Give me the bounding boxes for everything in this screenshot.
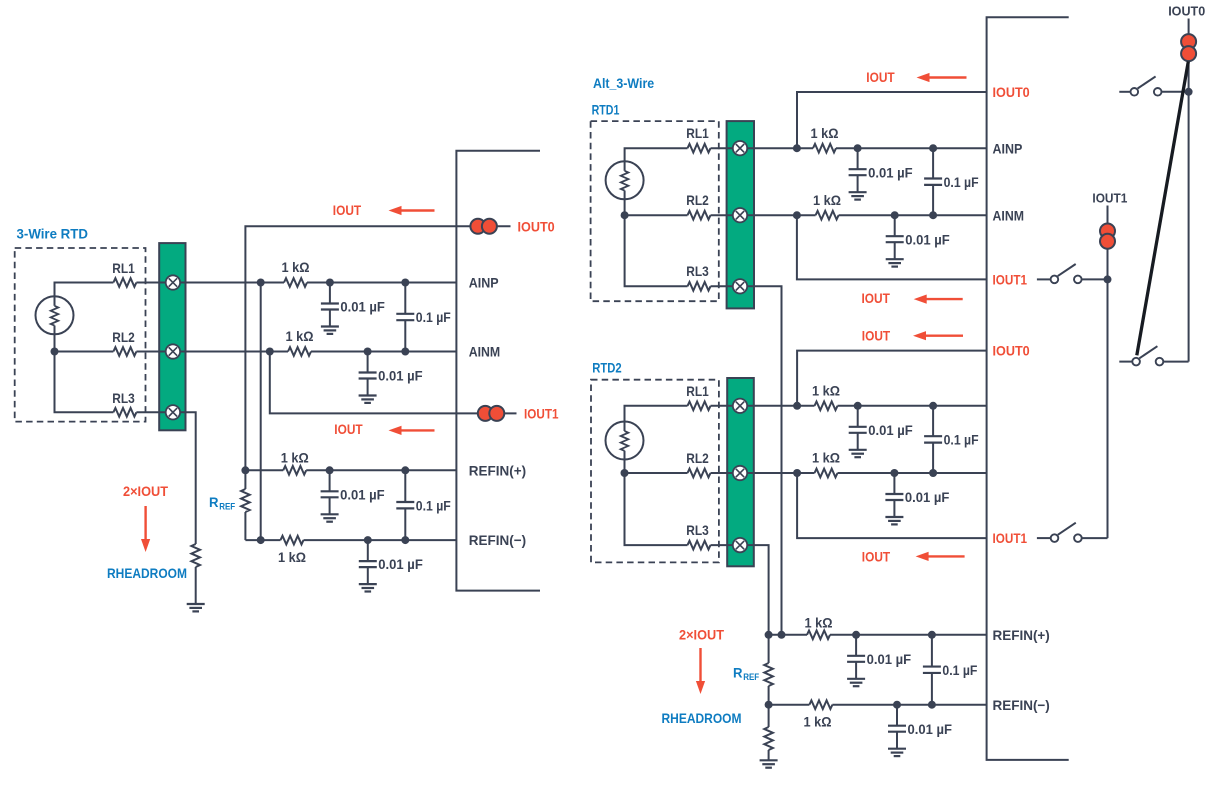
resistor 1 k&#937; (AINM2) [812, 450, 840, 478]
label IOUT0 (top right) [1168, 4, 1205, 19]
resistor RL3 [112, 390, 136, 416]
switch S2 stub [1037, 278, 1051, 280]
svg-text:IOUT0: IOUT0 [1168, 4, 1205, 19]
svg-text:1 kΩ: 1 kΩ [286, 328, 314, 344]
svg-text:RL2: RL2 [686, 450, 709, 466]
arrow IOUT above IOUT0-2 [913, 331, 963, 340]
svg-text:0.01 µF: 0.01 µF [867, 651, 912, 667]
pin label REFIN(+) (left chip) [469, 462, 526, 478]
svg-text:IOUT: IOUT [862, 327, 891, 343]
pin label IOUT0 (chip2 top) [993, 84, 1030, 100]
RTD1 enclosure (dashed box) [591, 121, 719, 301]
wire RL3 to terminal and down [136, 412, 195, 544]
svg-text:REFIN(+): REFIN(+) [469, 462, 526, 478]
IOUT1 pin contacts (red pair) [478, 406, 505, 421]
wire IOUT0 label to contacts [1188, 19, 1190, 35]
terminal X1-2 [166, 344, 180, 358]
svg-text:3-Wire RTD: 3-Wire RTD [17, 226, 89, 242]
svg-text:IOUT0: IOUT0 [993, 343, 1030, 359]
svg-text:AINM: AINM [469, 344, 501, 360]
svg-text:RL3: RL3 [112, 390, 135, 406]
svg-text:0.01 µF: 0.01 µF [340, 299, 385, 315]
green terminal block TB3 [727, 378, 754, 566]
pin label IOUT1 (chip2) [993, 272, 1028, 288]
resistor 1 k&#937; (REFIN+ right) [805, 614, 833, 639]
IOUT1 contacts (red vertical pair) [1100, 224, 1115, 249]
green terminal block TB2 [727, 121, 754, 308]
label R_REF (right) [733, 665, 760, 683]
arrow 2xIOUT down (left) [141, 506, 150, 552]
arrow IOUT left-top [389, 206, 435, 215]
node REFIN+ 0.1uF junction (right) [928, 631, 936, 639]
wire IOUT0 net: chip pin to REFIN(+) node [245, 226, 510, 470]
svg-text:Alt_3-Wire: Alt_3-Wire [593, 75, 654, 91]
wire IOUT1 switch bus (vertical) [1107, 279, 1109, 538]
resistor 1 k&#937; (REFIN-) [278, 536, 306, 565]
svg-text:R: R [209, 494, 219, 510]
RTD2 element [606, 422, 644, 460]
svg-text:REFIN(−): REFIN(−) [993, 697, 1050, 713]
svg-text:IOUT0: IOUT0 [993, 84, 1030, 100]
svg-text:0.01 µF: 0.01 µF [378, 368, 423, 384]
resistor R_REF (right) [764, 635, 773, 705]
resistor RL2 (RTD2) [686, 450, 710, 477]
wire S2 to junction [1082, 278, 1108, 280]
wire RL1 to terminal (RTD2) [711, 405, 728, 407]
svg-text:1 kΩ: 1 kΩ [282, 259, 310, 275]
svg-text:0.01 µF: 0.01 µF [908, 721, 953, 737]
terminal TB2-2 [733, 208, 747, 222]
resistor RHEADROOM (vertical) [191, 544, 200, 567]
wire AINM1 to IOUT1 (1) pin [797, 215, 987, 279]
capacitor 0.01 uF (AINP) with ground [321, 283, 385, 334]
label RHEADROOM (right) [662, 710, 742, 726]
resistor 1 k&#937; (REFIN+) [281, 449, 309, 474]
node REFIN- R_REF bottom [765, 701, 773, 709]
terminal X1-1 [166, 275, 180, 289]
node AINP1 cap junction [854, 144, 862, 152]
capacitor 0.01 uF (REFIN-) with ground [359, 540, 423, 591]
node AINM branch [266, 348, 274, 356]
wire AINP to REFIN(-) vertical [260, 283, 262, 541]
node RTD1 bottom / RL2 [621, 211, 629, 219]
node AINM1 branch [793, 211, 801, 219]
label R_REF (left) [209, 494, 236, 512]
svg-text:RHEADROOM: RHEADROOM [107, 565, 187, 581]
svg-text:IOUT: IOUT [862, 549, 891, 565]
wire RL1 to terminal (RTD1) [711, 147, 727, 149]
capacitor 0.01 uF (AINM2) with ground [885, 473, 949, 524]
capacitor 0.01 uF (REFIN+ right) with ground [847, 635, 911, 686]
wire RL2 row left [55, 351, 114, 353]
label IOUT (left lower) [334, 421, 363, 437]
node AINM1 0.1uF junction [929, 211, 937, 219]
node AINP1 branch [793, 144, 801, 152]
svg-text:IOUT: IOUT [866, 69, 895, 85]
resistor RL3 (RTD2) [686, 522, 710, 549]
svg-text:1 kΩ: 1 kΩ [278, 549, 306, 565]
label 2xIOUT (left) [123, 483, 168, 499]
capacitor 0.1 uF (REFIN+-REFIN-) [396, 470, 451, 540]
wire RTD top to RL1 row [55, 283, 114, 297]
RTD1 element [606, 161, 644, 199]
capacitor 0.1 uF (AINP2-AINM2) [924, 406, 979, 473]
svg-text:RL3: RL3 [686, 522, 709, 538]
wire AINP2 row [727, 405, 986, 407]
terminal X1-3 [166, 405, 180, 419]
ADC U1 outline (left chip) [456, 151, 540, 591]
node REFIN+ RL3-2 junction [765, 631, 773, 639]
wire RTD2 top to RL1 row [625, 406, 688, 422]
svg-text:RL2: RL2 [112, 329, 135, 345]
wire AINM1 row [711, 214, 987, 216]
node AINM1 cap junction [891, 211, 899, 219]
svg-text:IOUT: IOUT [334, 421, 363, 437]
svg-text:RL2: RL2 [686, 192, 709, 208]
wire AINM to IOUT1 pin [270, 352, 517, 414]
arrow IOUT below IOUT1-2 [916, 552, 965, 561]
wire REFIN(+) row [245, 469, 456, 471]
terminal TB3-3 [733, 538, 747, 552]
svg-text:2×IOUT: 2×IOUT [679, 627, 724, 643]
node AINM2 branch [793, 469, 801, 477]
svg-text:1 kΩ: 1 kΩ [813, 192, 841, 208]
node REFIN+ cap junction (right) [852, 631, 860, 639]
wire RL2 row left (RTD1) [625, 214, 688, 216]
wire RTD bottom to RL3 corner [55, 334, 114, 413]
wire RTD1 bottom to RL3 corner [625, 199, 688, 286]
svg-text:RL3: RL3 [686, 263, 709, 279]
node AINM2 cap junction [890, 469, 898, 477]
label IOUT1 (mid right) [1092, 191, 1127, 206]
resistor R_REF (left) [241, 470, 250, 540]
svg-text:REF: REF [219, 502, 235, 512]
svg-text:IOUT0: IOUT0 [518, 218, 555, 234]
svg-text:RHEADROOM: RHEADROOM [662, 710, 742, 726]
svg-text:1 kΩ: 1 kΩ [812, 450, 840, 466]
svg-text:0.1 µF: 0.1 µF [944, 174, 979, 190]
wire RL3 to terminal and long vertical to REFIN(+) [711, 286, 782, 635]
capacitor 0.1 uF (AINP-AINM) [396, 283, 451, 352]
node AINP2 0.1uF junction [929, 402, 937, 410]
node REFIN- cap junction (right) [893, 701, 901, 709]
svg-text:0.1 µF: 0.1 µF [416, 497, 451, 513]
svg-text:2×IOUT: 2×IOUT [123, 483, 168, 499]
wire REFIN(-) row [769, 704, 987, 706]
label: Alt_3-Wire [593, 75, 654, 91]
wire AINM2 to IOUT1 (2) pin [797, 473, 987, 538]
label IOUT (above IOUT0-2) [862, 327, 891, 343]
switch S4 stub [1037, 537, 1051, 539]
wire RTD2 bottom to RL3 corner [625, 459, 688, 545]
wire S1 to junction [1162, 91, 1189, 93]
label RTD2 [592, 360, 622, 376]
node REFIN- 0.1uF junction (right) [928, 701, 936, 709]
node REFIN+ cap junction [326, 466, 334, 474]
wire REFIN(+) row [769, 634, 987, 636]
arrow IOUT below IOUT1-1 [914, 295, 963, 304]
wire contacts to IOUT1 node [1107, 250, 1109, 280]
svg-text:RL1: RL1 [686, 383, 709, 399]
svg-text:1 kΩ: 1 kΩ [804, 714, 832, 730]
svg-text:IOUT1: IOUT1 [993, 272, 1028, 288]
svg-text:0.01 µF: 0.01 µF [868, 164, 913, 180]
resistor RL3 (RTD1) [686, 263, 710, 290]
switch S3 stub [1119, 361, 1132, 363]
pin label AINP (chip2) [993, 140, 1023, 156]
resistor 1 k&#937; (REFIN- right) [804, 700, 833, 729]
terminal TB2-3 [733, 279, 747, 293]
wire IOUT0 (1) net [797, 92, 987, 148]
svg-text:RL1: RL1 [686, 125, 709, 141]
node AINM2 0.1uF junction [929, 469, 937, 477]
label 2xIOUT (right) [679, 627, 724, 643]
wire S3 to bus [1164, 361, 1189, 363]
wire IOUT1 label to contacts [1107, 206, 1109, 225]
node AINP 0.1uF junction [401, 279, 409, 287]
pin label REFIN(+) (chip2) [993, 627, 1050, 643]
label: 3-Wire RTD [17, 226, 89, 242]
svg-text:IOUT1: IOUT1 [993, 530, 1028, 546]
switch S1 (IOUT0 top) [1131, 76, 1162, 95]
capacitor 0.01 uF (AINP1) with ground [849, 148, 913, 199]
wire resistor to ground [195, 567, 197, 604]
label RHEADROOM (left) [107, 565, 187, 581]
node REFIN- cap junction [364, 536, 372, 544]
svg-text:1 kΩ: 1 kΩ [811, 125, 839, 141]
svg-text:IOUT1: IOUT1 [524, 406, 559, 422]
pin label IOUT0 (chip2 mid) [993, 343, 1030, 359]
svg-text:0.01 µF: 0.01 µF [340, 486, 385, 502]
wire AINP row: terminal to chip [159, 282, 456, 284]
label RTD1 [592, 102, 620, 118]
ground (right RHEADROOM) [760, 760, 778, 767]
label IOUT1 pin (left chip) [524, 406, 559, 422]
pin label AINP (left chip) [469, 275, 499, 291]
wire RL2 row left (RTD2) [625, 472, 688, 474]
resistor 1 k&#937; (AINP) [282, 259, 310, 287]
capacitor 0.01 uF (AINM) with ground [359, 352, 423, 403]
node RTD2 bottom / RL2 [621, 469, 629, 477]
svg-text:0.1 µF: 0.1 µF [944, 432, 979, 448]
wire IOUT0 switch bus (vertical) [1188, 92, 1190, 362]
svg-text:1 kΩ: 1 kΩ [812, 382, 840, 398]
node AINP2 branch [793, 402, 801, 410]
node REFIN+ RL3-1 junction [778, 631, 786, 639]
pin label AINM (left chip) [469, 344, 501, 360]
switch S2 (IOUT1 top) [1051, 264, 1082, 283]
svg-text:0.01 µF: 0.01 µF [905, 489, 950, 505]
capacitor 0.01 uF (REFIN+) with ground [321, 470, 385, 521]
capacitor 0.01 uF (AINP2) with ground [849, 406, 913, 457]
wire RL1 to terminal [136, 282, 159, 284]
label IOUT (below IOUT1-1) [862, 290, 891, 306]
node REFIN+ 0.1uF junction [401, 466, 409, 474]
switch S1 stub [1119, 91, 1130, 93]
node AINP2 cap junction [854, 402, 862, 410]
green terminal block TB1 [159, 243, 185, 430]
node REFIN- 0.1uF junction [401, 536, 409, 544]
wire IOUT0 (2) net [797, 351, 987, 406]
node REFIN(+) R_REF top [241, 466, 249, 474]
svg-text:0.1 µF: 0.1 µF [942, 662, 977, 678]
wire AINM row: RL2 to chip [136, 351, 456, 353]
node AINM cap junction [364, 348, 372, 356]
pin label AINM (chip2) [993, 207, 1025, 223]
svg-text:1 kΩ: 1 kΩ [281, 449, 309, 465]
IOUT0 contacts (red vertical pair) [1181, 34, 1196, 61]
svg-text:REF: REF [743, 672, 759, 682]
wire RTD1 top to RL1 row [625, 148, 688, 162]
resistor 1 k&#937; (AINM) [286, 328, 314, 356]
resistor RHEADROOM (right, vertical) [764, 705, 773, 760]
crossbar IOUT0 to S3 (thick link) [1137, 62, 1189, 356]
wire contacts to switch node [1188, 60, 1190, 92]
switch S4 (IOUT1 bottom) [1051, 523, 1082, 542]
pin label IOUT1 (chip2 lower) [993, 530, 1028, 546]
svg-text:REFIN(+): REFIN(+) [993, 627, 1050, 643]
resistor RL1 (RTD2) [686, 383, 710, 410]
resistor RL2 (RTD1) [686, 192, 710, 219]
arrow 2xIOUT down (right) [696, 648, 705, 694]
svg-text:IOUT: IOUT [333, 202, 362, 218]
svg-text:AINM: AINM [993, 207, 1025, 223]
node AINP branch [257, 279, 265, 287]
resistor 1 k&#937; (AINM1) [813, 192, 841, 220]
arrow IOUT left-lower [389, 426, 435, 435]
pin label REFIN(-) (left chip) [469, 532, 526, 548]
resistor RL1 [112, 260, 136, 287]
wire AINP1 row [727, 147, 987, 149]
svg-text:IOUT: IOUT [862, 290, 891, 306]
svg-text:REFIN(−): REFIN(−) [469, 532, 526, 548]
svg-text:RL1: RL1 [112, 260, 135, 276]
wire AINM2 row [711, 472, 987, 474]
node AINM 0.1uF junction [401, 348, 409, 356]
svg-text:IOUT1: IOUT1 [1092, 191, 1127, 206]
capacitor 0.01 uF (REFIN- right) with ground [888, 705, 952, 756]
label IOUT0 pin (left chip) [518, 218, 555, 234]
node IOUT1 switch junction [1104, 275, 1112, 283]
svg-text:RTD1: RTD1 [592, 102, 620, 118]
capacitor 0.1 uF (REFIN right) [923, 635, 978, 705]
svg-text:0.01 µF: 0.01 µF [378, 556, 423, 572]
svg-text:AINP: AINP [993, 140, 1023, 156]
ground (RHEADROOM) [187, 604, 205, 611]
wire RL3 (RTD2) to REFIN(+) node [711, 545, 769, 635]
resistor 1 k&#937; (AINP1) [811, 125, 839, 153]
node IOUT0 switch junction [1185, 88, 1193, 96]
label IOUT (below IOUT1-2) [862, 549, 891, 565]
RTD element [36, 296, 74, 334]
svg-text:0.1 µF: 0.1 µF [416, 309, 451, 325]
wire REFIN(-) row [245, 539, 456, 541]
label IOUT (left top) [333, 202, 362, 218]
node REFIN- branch [257, 536, 265, 544]
svg-text:RTD2: RTD2 [592, 360, 622, 376]
node AINP cap junction [326, 279, 334, 287]
node RTD bottom / RL2 [51, 348, 59, 356]
capacitor 0.1 uF (AINP1-AINM1) [924, 148, 979, 215]
ADC U2 outline (right chip) [987, 17, 1069, 760]
terminal TB3-1 [733, 399, 747, 413]
capacitor 0.01 uF (AINM1) with ground [886, 215, 950, 266]
label IOUT (right top) [866, 69, 895, 85]
wire S4 to bus [1082, 537, 1108, 539]
terminal TB3-2 [733, 466, 747, 480]
resistor 1 k&#937; (AINP2) [812, 382, 840, 410]
switch S3 (IOUT0 bottom) [1132, 346, 1163, 365]
resistor RL1 (RTD1) [686, 125, 710, 152]
RTD2 enclosure (dashed box) [591, 380, 719, 563]
terminal TB2-1 [733, 141, 747, 155]
svg-text:1 kΩ: 1 kΩ [805, 614, 833, 630]
svg-text:AINP: AINP [469, 275, 499, 291]
svg-text:R: R [733, 665, 743, 681]
svg-text:0.01 µF: 0.01 µF [868, 422, 913, 438]
RTD sensor enclosure (dashed box) [15, 248, 146, 422]
IOUT0 pin contacts (red pair) [470, 219, 497, 234]
svg-text:0.01 µF: 0.01 µF [905, 231, 950, 247]
node AINP1 0.1uF junction [929, 144, 937, 152]
resistor RL2 [112, 329, 136, 356]
arrow IOUT right-top [917, 73, 967, 82]
pin label REFIN(-) (chip2) [993, 697, 1050, 713]
